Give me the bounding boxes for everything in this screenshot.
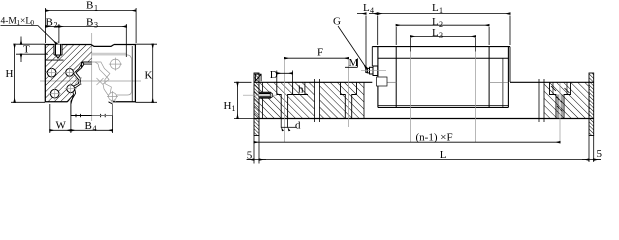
svg-text:B: B — [46, 17, 53, 29]
svg-text:T: T — [23, 44, 30, 56]
svg-text:H: H — [6, 68, 14, 80]
svg-text:L: L — [363, 2, 370, 14]
svg-text:1: 1 — [94, 4, 98, 13]
svg-text:G: G — [333, 16, 341, 28]
svg-text:L: L — [432, 16, 439, 28]
svg-text:3: 3 — [439, 31, 443, 40]
svg-text:B: B — [86, 0, 93, 12]
svg-text:2: 2 — [439, 20, 443, 29]
svg-text:L: L — [440, 149, 447, 161]
svg-text:4-M: 4-M — [1, 17, 18, 27]
svg-text:5: 5 — [597, 148, 603, 160]
svg-text:d: d — [295, 119, 301, 131]
svg-text:5: 5 — [247, 150, 253, 162]
svg-text:F: F — [317, 47, 323, 59]
svg-text:4: 4 — [370, 6, 374, 15]
svg-text:3: 3 — [94, 21, 98, 30]
svg-text:h: h — [298, 84, 304, 96]
svg-text:1: 1 — [439, 6, 443, 15]
svg-text:L: L — [432, 27, 439, 39]
svg-text:1: 1 — [232, 104, 236, 113]
svg-text:K: K — [145, 70, 153, 82]
svg-text:M: M — [349, 57, 359, 69]
svg-text:(n-1) ×F: (n-1) ×F — [416, 132, 453, 144]
svg-text:D: D — [270, 69, 278, 81]
svg-text:4: 4 — [93, 124, 97, 133]
svg-text:W: W — [56, 120, 67, 132]
svg-text:L: L — [432, 2, 439, 14]
svg-text:2: 2 — [54, 21, 58, 30]
svg-text:0: 0 — [31, 19, 35, 27]
svg-text:H: H — [224, 100, 232, 112]
svg-text:B: B — [86, 17, 93, 29]
svg-text:B: B — [85, 120, 92, 132]
